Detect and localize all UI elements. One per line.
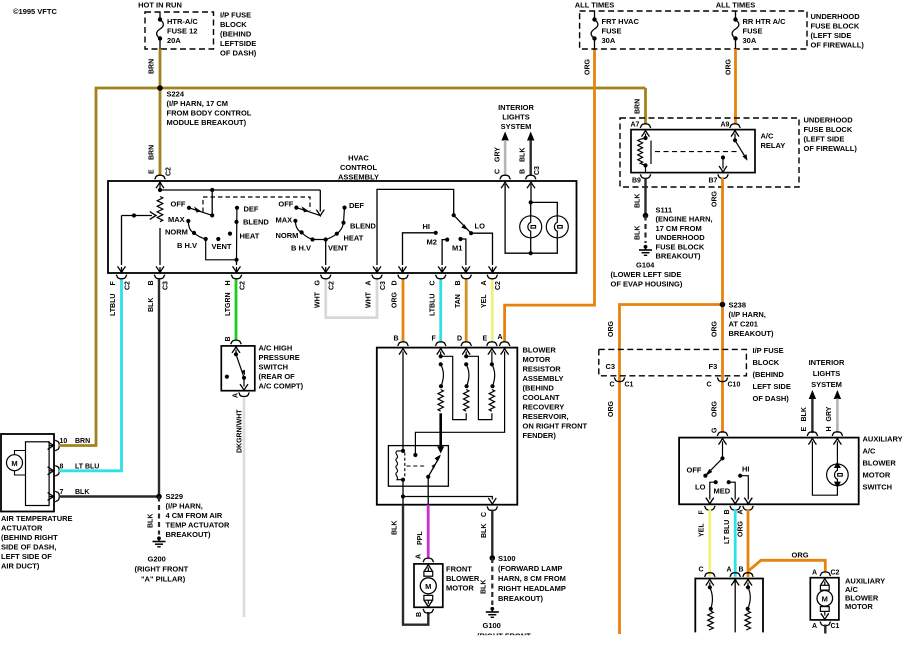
svg-text:(ENGINE HARN,: (ENGINE HARN, <box>656 215 713 224</box>
svg-text:(LEFT SIDE: (LEFT SIDE <box>811 31 852 40</box>
svg-text:HEAT: HEAT <box>240 231 260 240</box>
svg-text:F: F <box>699 510 706 515</box>
svg-text:B: B <box>455 280 462 285</box>
svg-text:LT BLU: LT BLU <box>75 463 99 470</box>
fan switch arm OFF <box>189 208 212 216</box>
svg-text:ACTUATOR: ACTUATOR <box>1 524 43 533</box>
svg-text:OF EVAP HOUSING): OF EVAP HOUSING) <box>611 280 683 289</box>
svg-text:H: H <box>826 426 833 431</box>
pin A2 connector C2 <box>487 275 498 279</box>
svg-text:ALL TIMES: ALL TIMES <box>716 1 755 10</box>
svg-text:S224: S224 <box>167 90 185 99</box>
aux resistor chain C <box>706 579 714 585</box>
svg-text:BLEND: BLEND <box>243 218 269 227</box>
svg-text:GRY: GRY <box>495 147 502 162</box>
svg-text:UNDERHOOD: UNDERHOOD <box>804 116 854 125</box>
svg-text:(I/P HARN, 17 CM: (I/P HARN, 17 CM <box>167 99 229 108</box>
svg-text:(BEHIND: (BEHIND <box>753 370 785 379</box>
front motor pin B connector <box>423 609 434 613</box>
auxiliary A/C blower motor switch box <box>679 438 859 505</box>
svg-text:F: F <box>110 281 117 286</box>
svg-text:C3: C3 <box>162 281 169 290</box>
front blower motor box <box>414 564 443 607</box>
svg-text:LEFT SIDE OF: LEFT SIDE OF <box>1 552 52 561</box>
svg-text:INTERIOR: INTERIOR <box>809 358 845 367</box>
svg-text:M: M <box>822 595 828 604</box>
svg-text:D: D <box>392 280 399 285</box>
svg-text:ORG: ORG <box>711 401 718 418</box>
lamp left <box>520 216 542 238</box>
svg-text:MAX: MAX <box>276 216 293 225</box>
svg-text:ON RIGHT FRONT: ON RIGHT FRONT <box>523 422 588 431</box>
actuator pin 10 <box>49 445 54 447</box>
wire BLK to interior lights right <box>809 390 816 399</box>
aux switch lamp <box>827 464 849 486</box>
wire ORG pin D to resistor pin B <box>402 280 405 343</box>
svg-text:A: A <box>233 393 240 398</box>
wire LTBLU aux switch to resistor pin A <box>734 509 737 577</box>
aux switch arm to OFF <box>705 458 722 475</box>
connector C10 <box>717 378 728 382</box>
svg-text:LTBLU: LTBLU <box>110 294 117 316</box>
series link F top to D bottom <box>441 356 467 419</box>
relay fixed contact <box>413 453 417 457</box>
svg-text:LTBLU: LTBLU <box>429 294 436 316</box>
svg-text:7: 7 <box>60 489 64 496</box>
svg-text:A: A <box>812 623 817 630</box>
svg-text:YEL: YEL <box>699 523 706 537</box>
wire relay arm to PPL exit <box>427 477 429 505</box>
A/C relay outer dashed box <box>620 118 799 187</box>
svg-text:C2: C2 <box>329 281 336 290</box>
aux resistor chain B <box>744 579 752 585</box>
wire BLK relay B9 to S111 <box>644 179 646 216</box>
A/C high pressure switch box <box>221 346 255 391</box>
svg-text:C: C <box>707 382 712 389</box>
wire ORG aux switch to resistor pin B and aux motor <box>747 509 750 577</box>
svg-text:BREAKOUT): BREAKOUT) <box>729 329 774 338</box>
svg-text:M: M <box>11 459 17 468</box>
svg-text:PPL: PPL <box>417 531 424 545</box>
svg-text:BLK: BLK <box>481 524 488 538</box>
air temperature actuator <box>1 434 54 512</box>
svg-text:CONTROL: CONTROL <box>340 163 377 172</box>
wire DEF-BLEND <box>344 208 345 223</box>
svg-text:ASSEMBLY: ASSEMBLY <box>338 173 379 182</box>
blower motor resistor assembly box <box>377 348 518 505</box>
resistor pin C connector <box>487 506 498 510</box>
svg-text:OF FIREWALL): OF FIREWALL) <box>804 144 858 153</box>
wire ORG RR HTR fuse to relay A9 <box>734 49 737 124</box>
svg-text:NORM: NORM <box>165 228 188 237</box>
svg-text:RESISTOR: RESISTOR <box>523 365 562 374</box>
svg-text:30A: 30A <box>743 36 757 45</box>
wire coil to pin C and BLK exit <box>402 480 404 505</box>
actuator pin 8 <box>49 470 54 472</box>
svg-text:C2: C2 <box>124 281 131 290</box>
wire BLK S229 to ground (dashed) <box>158 497 160 535</box>
actuator motor M <box>7 455 23 471</box>
svg-text:F: F <box>432 336 437 343</box>
lamp right <box>546 216 568 238</box>
svg-text:A/C: A/C <box>863 447 877 456</box>
svg-text:ORG: ORG <box>726 59 733 76</box>
svg-text:S111: S111 <box>656 206 673 215</box>
svg-text:WHT: WHT <box>314 291 321 308</box>
resistor chain F: thermal limiter and resistor <box>441 364 444 386</box>
svg-text:DEF: DEF <box>244 205 259 214</box>
wire LTGRN pin H to pressure switch <box>235 280 238 341</box>
wire VENT to pin G <box>325 240 327 266</box>
wire ORG S238 branch to C3 <box>620 305 723 635</box>
svg-text:F3: F3 <box>709 362 718 371</box>
svg-text:MOTOR: MOTOR <box>523 355 551 364</box>
svg-text:H: H <box>225 280 232 285</box>
svg-text:BLK: BLK <box>148 514 155 528</box>
wire BRN S224 to HVAC pin E <box>159 88 162 176</box>
svg-text:HEAT: HEAT <box>344 234 364 243</box>
svg-text:NORM: NORM <box>276 231 299 240</box>
wire DKGRN/WHT from pressure switch <box>243 397 246 617</box>
mode switch contact arc <box>295 221 343 240</box>
aux switch pin G connector <box>717 432 728 436</box>
relay switch arm <box>733 138 737 142</box>
svg-text:PRESSURE: PRESSURE <box>259 353 300 362</box>
svg-text:B: B <box>739 567 744 574</box>
wire riser to mode switch pivot <box>319 190 321 212</box>
wire LTBLU pin C to resistor pin F <box>439 280 442 343</box>
wire E feed bus <box>159 182 161 190</box>
pin F connector C2 <box>116 275 127 279</box>
svg-text:30A: 30A <box>602 36 616 45</box>
svg-text:I/P FUSE: I/P FUSE <box>753 346 784 355</box>
pressure switch pin A <box>239 392 250 396</box>
svg-text:RR HTR A/C: RR HTR A/C <box>743 17 787 26</box>
svg-text:RELAY: RELAY <box>761 141 786 150</box>
svg-text:C2: C2 <box>831 570 840 577</box>
svg-text:SIDE OF DASH,: SIDE OF DASH, <box>1 543 56 552</box>
svg-text:(FORWARD LAMP: (FORWARD LAMP <box>498 564 562 573</box>
svg-text:B: B <box>519 169 526 174</box>
ground G100 <box>486 607 499 617</box>
svg-text:"A" PILLAR): "A" PILLAR) <box>141 575 186 584</box>
pin B connector C3 <box>154 275 165 279</box>
wire BLK pin C to S100 <box>491 510 493 558</box>
aux switch pin A connector <box>743 506 754 510</box>
pin G connector C2 <box>320 275 331 279</box>
aux switch pin B connector <box>730 506 741 510</box>
relay mechanical link (dashed) <box>407 465 427 467</box>
wire ORG FRT HVAC fuse to resistor pin A <box>505 49 595 343</box>
svg-text:RESERVOIR,: RESERVOIR, <box>523 412 569 421</box>
svg-text:BREAKOUT): BREAKOUT) <box>656 252 701 261</box>
svg-text:M2: M2 <box>427 238 437 247</box>
svg-text:MODULE BREAKOUT): MODULE BREAKOUT) <box>167 118 247 127</box>
relay coil <box>401 449 405 453</box>
svg-text:LEFT SIDE: LEFT SIDE <box>753 382 791 391</box>
resistor blower rheostat <box>157 197 163 222</box>
svg-text:A: A <box>498 334 503 341</box>
svg-text:AUXILIARY: AUXILIARY <box>863 435 903 444</box>
svg-text:HARN, 8 CM FROM: HARN, 8 CM FROM <box>498 574 566 583</box>
svg-text:FRT HVAC: FRT HVAC <box>602 17 640 26</box>
wire LTBLU pin F to actuator pin 8 <box>120 280 123 472</box>
svg-text:FENDER): FENDER) <box>523 431 557 440</box>
svg-text:©1995 VFTC: ©1995 VFTC <box>13 7 57 16</box>
svg-text:LTGRN: LTGRN <box>225 292 232 316</box>
svg-text:OFF: OFF <box>171 200 186 209</box>
svg-text:(LOWER LEFT SIDE: (LOWER LEFT SIDE <box>611 270 682 279</box>
svg-text:C1: C1 <box>831 623 840 630</box>
wire YEL pin A to resistor pin E <box>491 280 494 343</box>
fan switch selected path <box>188 221 205 239</box>
svg-text:A: A <box>481 280 488 285</box>
svg-text:BLK: BLK <box>634 194 641 208</box>
pressure switch arm <box>236 354 244 377</box>
svg-text:FUSE: FUSE <box>602 27 622 36</box>
svg-text:S100: S100 <box>498 554 516 563</box>
svg-text:G104: G104 <box>636 261 655 270</box>
svg-text:E: E <box>801 427 808 432</box>
svg-text:MAX: MAX <box>168 215 185 224</box>
pin D connector <box>398 275 409 279</box>
node S111 <box>643 213 649 219</box>
svg-text:OF DASH): OF DASH) <box>753 394 790 403</box>
node S100 <box>490 555 496 561</box>
svg-text:B: B <box>225 336 232 341</box>
svg-text:FUSE: FUSE <box>743 27 763 36</box>
svg-text:A: A <box>366 280 373 285</box>
svg-text:GRY: GRY <box>826 406 833 421</box>
wire rheostat wiper from pin F <box>122 215 153 217</box>
underhood fuse block (dashed) <box>580 11 807 49</box>
svg-text:ORG: ORG <box>711 321 718 338</box>
pin A connector C3 <box>372 275 383 279</box>
pin C connector <box>435 275 446 279</box>
svg-text:BLK: BLK <box>75 489 89 496</box>
svg-text:FUSE BLOCK: FUSE BLOCK <box>811 22 860 31</box>
svg-text:FUSE BLOCK: FUSE BLOCK <box>656 242 705 251</box>
svg-text:BLOWER: BLOWER <box>863 459 897 468</box>
svg-text:SYSTEM: SYSTEM <box>501 122 532 131</box>
wire bold chain F to relay contact <box>439 413 442 449</box>
svg-text:BLK: BLK <box>392 521 399 535</box>
aux switch pin F connector <box>705 506 716 510</box>
svg-text:MOTOR: MOTOR <box>863 471 891 480</box>
svg-text:RECOVERY: RECOVERY <box>523 403 565 412</box>
svg-text:BLK: BLK <box>801 407 808 421</box>
svg-text:(BEHIND: (BEHIND <box>523 384 555 393</box>
svg-text:A/C: A/C <box>761 132 775 141</box>
svg-text:BLOCK: BLOCK <box>753 358 780 367</box>
svg-text:ORG: ORG <box>392 292 399 309</box>
svg-text:G100: G100 <box>483 621 501 630</box>
svg-text:C3: C3 <box>534 166 541 175</box>
resistor chain D <box>466 364 469 386</box>
svg-text:S238: S238 <box>729 301 747 310</box>
svg-text:COOLANT: COOLANT <box>523 393 560 402</box>
svg-text:C: C <box>429 280 436 285</box>
wire BRN S224 horizontal run <box>96 88 646 446</box>
svg-text:A/C HIGH: A/C HIGH <box>259 344 293 353</box>
svg-text:RIGHT HEADLAMP: RIGHT HEADLAMP <box>498 584 566 593</box>
svg-text:BLK: BLK <box>634 226 641 240</box>
wire BLK S111 to ground (dashed) <box>644 216 646 244</box>
svg-text:M: M <box>425 582 431 591</box>
svg-text:BRN: BRN <box>634 99 641 114</box>
wire BLK S100 to ground (dashed) <box>491 558 493 605</box>
svg-text:DKGRN/WHT: DKGRN/WHT <box>237 409 244 453</box>
svg-text:SWITCH: SWITCH <box>863 483 893 492</box>
pin E connector C2 <box>155 175 166 179</box>
svg-text:(I/P HARN,: (I/P HARN, <box>729 310 766 319</box>
svg-text:BLK: BLK <box>481 580 488 594</box>
wire BLK resistor box to front motor pin B <box>403 505 428 625</box>
wire WHT loop G to A <box>326 280 377 318</box>
svg-text:INTERIOR: INTERIOR <box>498 103 534 112</box>
relay mechanical link (dashed) <box>655 151 737 153</box>
svg-text:BRN: BRN <box>149 59 156 74</box>
aux resistor pin A arrow <box>731 579 739 585</box>
svg-text:E: E <box>149 169 156 174</box>
svg-text:WHT: WHT <box>366 291 373 308</box>
svg-text:MED: MED <box>714 487 731 496</box>
svg-text:ALL TIMES: ALL TIMES <box>575 1 614 10</box>
svg-text:TEMP ACTUATOR: TEMP ACTUATOR <box>166 521 230 530</box>
svg-text:(I/P HARN,: (I/P HARN, <box>166 502 203 511</box>
svg-text:(LEFT SIDE: (LEFT SIDE <box>804 135 845 144</box>
auxiliary A/C blower motor box <box>810 578 839 620</box>
relay moving arm <box>428 456 440 477</box>
svg-text:BLEND: BLEND <box>350 222 376 231</box>
svg-text:FRONT: FRONT <box>446 565 472 574</box>
svg-text:HVAC: HVAC <box>348 154 369 163</box>
svg-text:B: B <box>416 612 423 617</box>
svg-text:A: A <box>812 570 817 577</box>
svg-text:YEL: YEL <box>481 294 488 308</box>
svg-text:B H.V: B H.V <box>291 244 311 253</box>
pin H connector C2 <box>231 275 242 279</box>
resistor relay box <box>388 446 448 487</box>
svg-text:TAN: TAN <box>455 294 462 308</box>
svg-text:G200: G200 <box>148 555 166 564</box>
wire YEL aux switch to resistor pin C <box>708 509 711 577</box>
svg-text:A: A <box>727 567 732 574</box>
svg-text:VENT: VENT <box>212 242 232 251</box>
svg-text:HTR-A/C: HTR-A/C <box>167 17 198 26</box>
HVAC control assembly box <box>108 181 577 273</box>
svg-text:17 CM FROM: 17 CM FROM <box>656 224 702 233</box>
A/C relay inner box <box>631 130 755 173</box>
svg-text:FROM BODY CONTROL: FROM BODY CONTROL <box>167 109 252 118</box>
svg-text:OF DASH): OF DASH) <box>220 49 257 58</box>
svg-text:AIR DUCT): AIR DUCT) <box>1 562 40 571</box>
svg-text:D: D <box>457 336 462 343</box>
auxiliary blower resistor box (cropped) <box>695 579 763 633</box>
wire pin A riser to blower switch pivot <box>377 189 454 265</box>
wire TAN pin B to resistor pin D <box>465 280 468 343</box>
svg-text:B: B <box>394 336 399 343</box>
svg-text:ORG: ORG <box>585 59 592 76</box>
svg-text:(BEHIND: (BEHIND <box>220 30 252 39</box>
illumination lamps wiring <box>527 182 535 188</box>
scan crop mask bottom <box>380 635 600 660</box>
svg-text:G: G <box>314 280 321 286</box>
svg-text:A: A <box>737 509 744 514</box>
mechanical linkage (dashed) <box>203 197 310 212</box>
svg-text:B H.V: B H.V <box>177 241 197 250</box>
svg-text:C: C <box>699 567 704 574</box>
I/P fuse block (dashed) mid <box>599 349 747 375</box>
resistor chain E <box>492 364 495 386</box>
svg-text:BLOCK: BLOCK <box>220 20 247 29</box>
connector C1 <box>614 378 625 382</box>
I/P fuse block (dashed) top left <box>145 12 214 49</box>
svg-text:C3: C3 <box>606 362 616 371</box>
aux switch lamp wiring <box>808 438 816 444</box>
node S229 <box>156 494 162 500</box>
svg-text:C: C <box>481 512 488 517</box>
ground G200 <box>153 536 166 546</box>
wire BLK pin B to S229 <box>158 280 160 497</box>
fuse HTR-A/C FUSE 12 20A <box>159 12 161 20</box>
svg-text:BLOWER: BLOWER <box>523 346 557 355</box>
svg-text:OF FIREWALL): OF FIREWALL) <box>811 41 865 50</box>
svg-text:LO: LO <box>695 483 706 492</box>
svg-text:MOTOR: MOTOR <box>845 602 873 611</box>
svg-text:UNDERHOOD: UNDERHOOD <box>811 12 861 21</box>
svg-text:UNDERHOOD: UNDERHOOD <box>656 233 706 242</box>
svg-text:B9: B9 <box>632 178 641 185</box>
svg-text:ORG: ORG <box>737 521 744 538</box>
wire BRN fuse to S224 <box>159 49 162 88</box>
front motor M <box>420 578 436 594</box>
fuse RR HTR A/C 30A <box>735 11 737 20</box>
svg-text:B7: B7 <box>709 178 718 185</box>
svg-text:SYSTEM: SYSTEM <box>811 380 842 389</box>
wire LTBLU actuator pin 8 <box>59 469 123 472</box>
aux switch pin H connector <box>832 432 843 436</box>
svg-text:S229: S229 <box>166 492 184 501</box>
aux motor pin A connector C1 <box>820 622 831 626</box>
svg-text:SWITCH: SWITCH <box>259 363 289 372</box>
svg-text:I/P FUSE: I/P FUSE <box>220 11 251 20</box>
svg-text:A9: A9 <box>721 122 730 129</box>
svg-text:MOTOR: MOTOR <box>446 584 474 593</box>
svg-text:(RIGHT FRONT: (RIGHT FRONT <box>135 565 189 574</box>
svg-text:ORG: ORG <box>711 191 718 208</box>
svg-text:AT C201: AT C201 <box>729 320 758 329</box>
ground G104 <box>639 245 652 255</box>
svg-text:C2: C2 <box>495 281 502 290</box>
aux switch pin E connector <box>807 432 818 436</box>
svg-text:C10: C10 <box>728 382 741 389</box>
svg-text:VENT: VENT <box>328 244 348 253</box>
wire pin A to relay coil contact <box>415 352 504 456</box>
svg-text:ASSEMBLY: ASSEMBLY <box>523 374 564 383</box>
wire BLK to interior lights <box>527 132 534 141</box>
svg-text:C1: C1 <box>625 382 634 389</box>
svg-text:8: 8 <box>60 463 64 470</box>
pin B2 connector <box>461 275 472 279</box>
svg-text:LO: LO <box>475 222 486 231</box>
wire BRN actuator pin 10 <box>59 444 97 447</box>
svg-text:C: C <box>610 382 615 389</box>
wire BLK aux motor down (cropped) <box>824 625 826 634</box>
svg-text:ORG: ORG <box>608 401 615 418</box>
svg-text:BREAKOUT): BREAKOUT) <box>166 530 211 539</box>
svg-text:HI: HI <box>423 222 431 231</box>
